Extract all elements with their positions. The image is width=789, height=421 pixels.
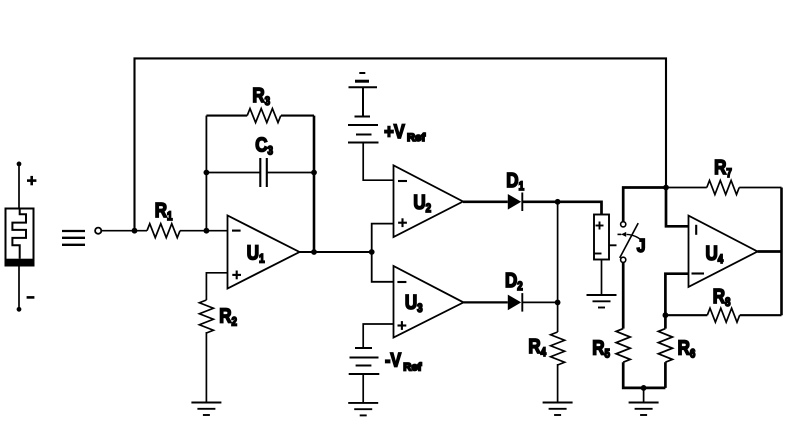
wire	[101, 230, 147, 232]
wire U2 output	[463, 200, 508, 203]
switch J	[621, 222, 626, 227]
glass electrode body	[6, 209, 34, 266]
input terminal	[95, 228, 101, 234]
wire	[623, 362, 665, 388]
wire U4 output	[758, 250, 782, 253]
svg-text:-V: -V	[385, 349, 401, 371]
node center	[369, 249, 375, 255]
resistor R5	[616, 329, 630, 363]
electrode internal element	[12, 209, 26, 259]
wire battery to U2	[363, 143, 393, 181]
wire to U3 minus	[372, 252, 394, 282]
ground	[191, 403, 221, 416]
svg-text:Ref: Ref	[403, 362, 421, 374]
wire	[522, 200, 557, 203]
wire U3 plus input	[363, 324, 393, 348]
wire feedback loop top	[135, 58, 667, 230]
resistor R2	[199, 300, 213, 333]
node R1 out	[204, 228, 210, 234]
node R5 R6	[641, 385, 647, 391]
diode D2	[508, 295, 521, 311]
resistor R7	[666, 187, 707, 189]
svg-text:J: J	[637, 235, 646, 257]
op-amp U4	[689, 216, 758, 287]
wire	[622, 262, 625, 328]
resistor R4	[551, 332, 565, 365]
node U1 out	[311, 249, 317, 255]
wire	[18, 266, 20, 310]
node R7	[663, 185, 669, 191]
battery -VRef	[349, 348, 380, 374]
ground	[587, 295, 617, 308]
diode D1	[508, 194, 521, 210]
wire J branch top	[623, 188, 666, 222]
wire U4 minus input	[665, 274, 688, 316]
capacitor C3	[206, 172, 260, 174]
wire to U2 plus	[372, 224, 394, 252]
op-amp U1	[228, 216, 300, 289]
wire	[180, 230, 228, 232]
wire U1 plus input	[206, 273, 227, 300]
node input	[132, 228, 138, 234]
wire R6 bottom	[664, 362, 667, 388]
electrode minus label	[27, 296, 35, 299]
electrode plus label	[27, 176, 36, 185]
wire	[205, 332, 207, 403]
resistor R3	[206, 115, 314, 117]
battery top minus label	[359, 72, 365, 74]
wire feedback left vertical	[205, 116, 207, 231]
resistor R8	[665, 314, 707, 316]
cell E	[594, 215, 609, 260]
op-amp U2	[394, 165, 464, 237]
wire	[557, 364, 559, 403]
wire node column	[557, 202, 559, 332]
svg-text:+V: +V	[384, 121, 405, 143]
electrode bottom terminal dot	[17, 307, 22, 312]
wire U1 output	[300, 251, 372, 253]
electrode top terminal dot	[17, 162, 22, 167]
wire feedback right vertical	[313, 116, 316, 252]
op-amp U3	[394, 266, 464, 338]
resistor R1	[147, 224, 180, 238]
ground	[348, 403, 378, 416]
battery +VRef	[348, 81, 379, 142]
node C3 left	[204, 170, 210, 176]
wire right rail	[780, 188, 783, 316]
ground	[543, 403, 573, 416]
node R8	[663, 312, 669, 318]
node D1 out	[555, 199, 561, 205]
equivalence symbol	[62, 231, 85, 245]
ground	[629, 403, 659, 416]
wire to cell	[558, 202, 602, 215]
wire	[522, 301, 557, 303]
resistor R6	[658, 329, 672, 363]
electrode membrane bar	[6, 259, 34, 266]
wire R6 top	[664, 315, 667, 328]
wire	[601, 260, 603, 296]
wire U3 output	[464, 301, 508, 303]
node C3 right	[311, 170, 317, 176]
wire	[643, 388, 645, 403]
svg-text:Ref: Ref	[407, 132, 425, 144]
wire	[362, 374, 364, 403]
wire	[18, 164, 20, 209]
node D2 out	[555, 300, 561, 306]
wire U4 plus input	[666, 188, 689, 227]
